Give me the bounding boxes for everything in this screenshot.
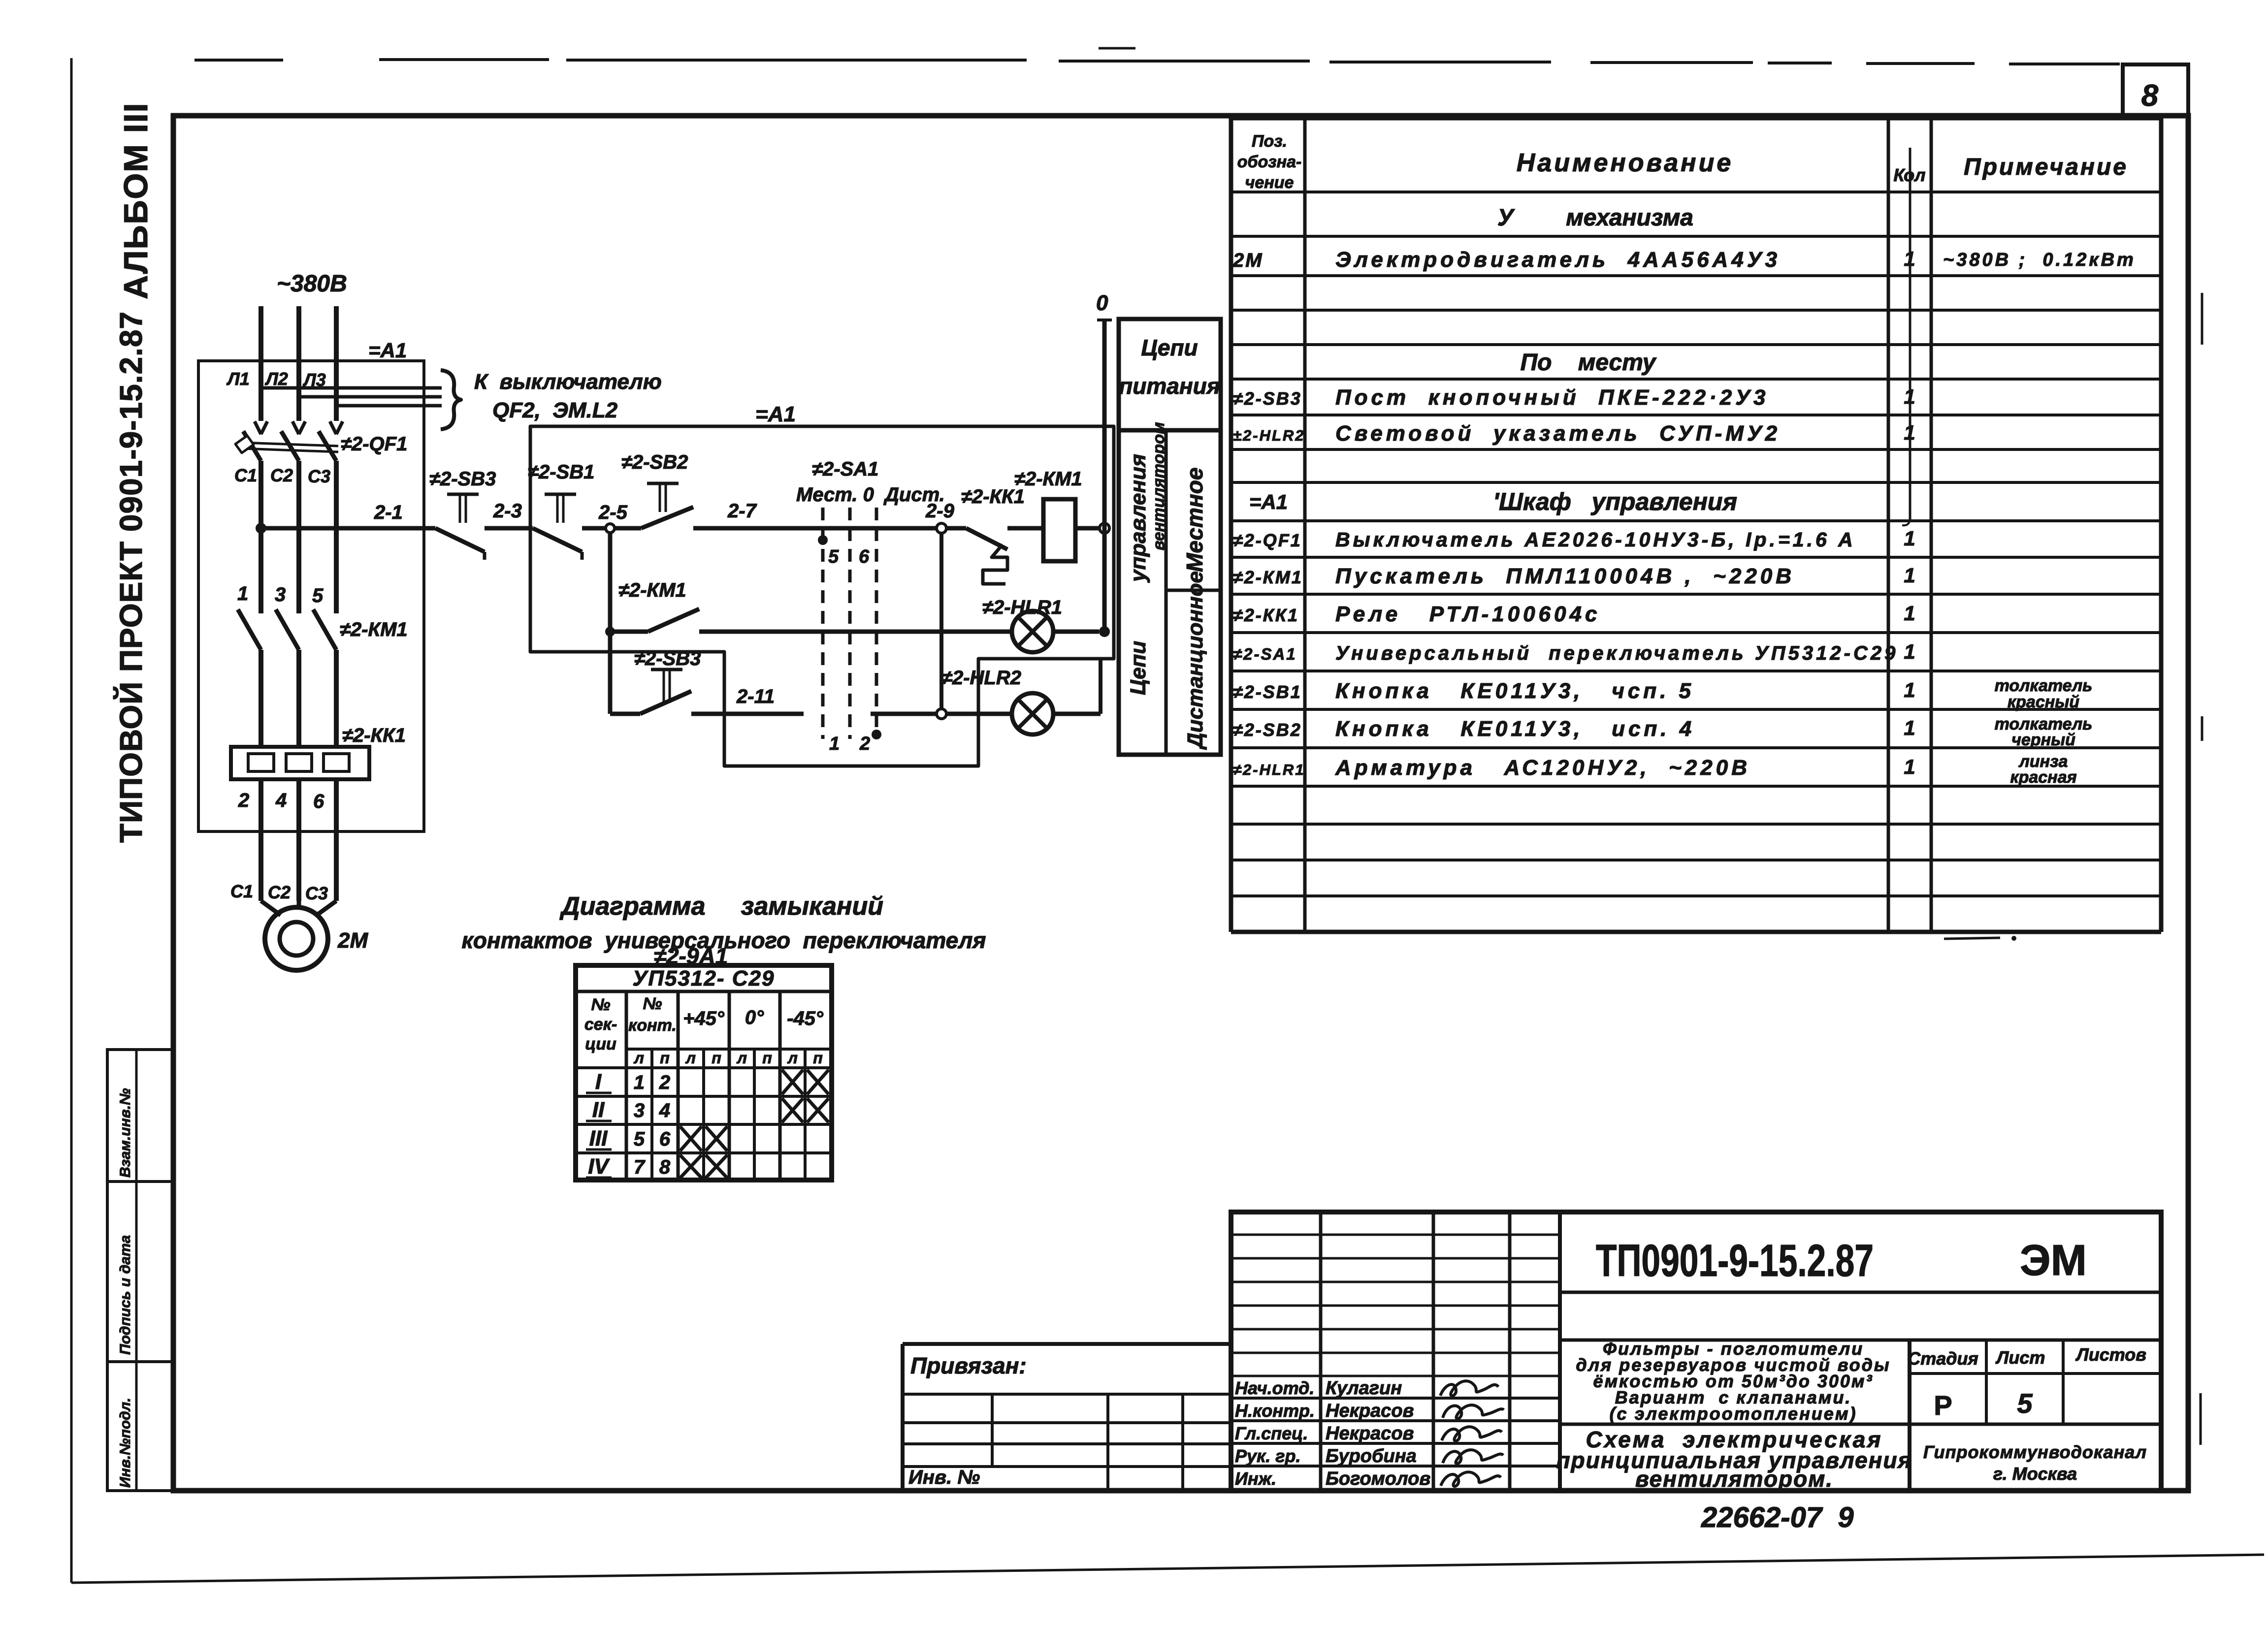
svg-text:С3: С3 [305, 883, 328, 903]
svg-text:обозна-: обозна- [1237, 153, 1302, 171]
svg-text:Рук. гр.: Рук. гр. [1235, 1446, 1301, 1466]
svg-text:1: 1 [1904, 527, 1915, 550]
svg-text:7: 7 [634, 1156, 646, 1178]
svg-text:≠2-HLR1: ≠2-HLR1 [982, 597, 1062, 618]
svg-text:Примечание: Примечание [1964, 154, 2128, 180]
svg-text:л: л [787, 1049, 798, 1067]
svg-text:л: л [685, 1049, 696, 1067]
svg-text:=А1: =А1 [368, 339, 407, 362]
svg-text:Стадия: Стадия [1908, 1348, 1978, 1369]
svg-text:1: 1 [1904, 755, 1915, 778]
svg-text:QF2, ЭМ.L2: QF2, ЭМ.L2 [492, 398, 618, 422]
svg-text:С2: С2 [268, 882, 291, 902]
svg-text:Арматура АС120НУ2, ~220В: Арматура АС120НУ2, ~220В [1335, 756, 1750, 780]
svg-text:Световой указатель СУП-МУ2: Световой указатель СУП-МУ2 [1335, 421, 1781, 446]
svg-text:У механизма: У механизма [1497, 205, 1693, 231]
svg-text:Пускатель ПМЛ110004В , ~220В: Пускатель ПМЛ110004В , ~220В [1335, 564, 1795, 588]
svg-text:черный: черный [2011, 731, 2075, 749]
svg-text:л: л [736, 1049, 747, 1067]
svg-text:С1: С1 [230, 881, 253, 901]
svg-text:≠2-QF1: ≠2-QF1 [341, 433, 407, 455]
svg-text:5: 5 [634, 1128, 645, 1150]
svg-text:~380В ; 0.12кВт: ~380В ; 0.12кВт [1943, 250, 2136, 270]
svg-text:2-1: 2-1 [374, 502, 403, 523]
svg-text:1: 1 [634, 1072, 645, 1093]
svg-text:8: 8 [2141, 79, 2159, 113]
svg-text:1: 1 [1904, 716, 1915, 739]
svg-text:(с электроотоплением): (с электроотоплением) [1610, 1404, 1857, 1424]
svg-text:ТП0901-9-15.2.87: ТП0901-9-15.2.87 [1596, 1236, 1874, 1286]
svg-text:Мест. 0 Дист.: Мест. 0 Дист. [796, 484, 945, 506]
svg-text:-45°: -45° [787, 1008, 824, 1029]
svg-text:IV: IV [588, 1154, 610, 1179]
svg-text:2М: 2М [337, 928, 368, 953]
svg-text:л: л [633, 1049, 644, 1067]
svg-text:г. Москва: г. Москва [1993, 1464, 2077, 1484]
svg-text:Богомолов: Богомолов [1326, 1468, 1430, 1489]
svg-text:Буробина: Буробина [1326, 1446, 1417, 1467]
svg-text:2М: 2М [1232, 250, 1264, 271]
svg-text:≠2-SB1: ≠2-SB1 [1233, 682, 1302, 702]
svg-text:4: 4 [659, 1100, 670, 1121]
svg-text:С1: С1 [234, 465, 257, 485]
svg-text:≠2-HLR2: ≠2-HLR2 [941, 667, 1021, 689]
svg-text:0°: 0° [745, 1007, 764, 1028]
svg-text:Кнопка КЕ011У3, чсп. 5: Кнопка КЕ011У3, чсп. 5 [1335, 679, 1694, 703]
svg-text:Некрасов: Некрасов [1326, 1401, 1414, 1421]
svg-text:2-7: 2-7 [727, 500, 757, 522]
svg-text:1: 1 [237, 583, 248, 605]
svg-text:чение: чение [1245, 173, 1294, 192]
svg-text:УП5312- С29: УП5312- С29 [633, 966, 775, 990]
svg-text:п: п [660, 1049, 670, 1067]
svg-text:Выключатель АЕ2026-10НУ3-Б, Iр: Выключатель АЕ2026-10НУ3-Б, Iр.=1.6 А [1335, 528, 1856, 551]
svg-text:≠2-КК1: ≠2-КК1 [1233, 605, 1299, 625]
svg-text:Пост кнопочный ПКЕ-222·2У3: Пост кнопочный ПКЕ-222·2У3 [1335, 385, 1769, 410]
svg-text:≠2-HLR1: ≠2-HLR1 [1233, 761, 1305, 778]
svg-text:С3: С3 [308, 466, 330, 486]
svg-text:1: 1 [829, 734, 840, 754]
svg-text:С2: С2 [270, 465, 293, 485]
svg-text:1: 1 [1904, 640, 1915, 663]
svg-text:Листов: Листов [2075, 1344, 2146, 1365]
svg-text:Поз.: Поз. [1252, 132, 1287, 151]
svg-text:Инж.: Инж. [1235, 1468, 1276, 1489]
svg-text:Привязан:: Привязан: [910, 1353, 1027, 1378]
svg-text:≠2-SB3: ≠2-SB3 [429, 468, 496, 490]
svg-text:1: 1 [1904, 678, 1915, 702]
svg-text:6: 6 [659, 1128, 671, 1150]
svg-text:Нач.отд.: Нач.отд. [1235, 1378, 1314, 1398]
svg-text:п: п [712, 1049, 721, 1067]
svg-text:+45°: +45° [683, 1008, 725, 1029]
svg-text:п: п [762, 1049, 772, 1067]
svg-text:4: 4 [275, 790, 287, 811]
svg-text:22662-07 9: 22662-07 9 [1701, 1501, 1854, 1533]
svg-text:Местное: Местное [1182, 468, 1207, 572]
svg-text:II: II [592, 1098, 605, 1122]
svg-text:≠2-SB1: ≠2-SB1 [528, 461, 594, 483]
svg-text:№: № [591, 995, 611, 1014]
svg-text:Диаграмма замыканий: Диаграмма замыканий [559, 892, 883, 921]
svg-text:К выключателю: К выключателю [474, 370, 662, 394]
svg-text:≠2-КМ1: ≠2-КМ1 [1233, 567, 1303, 587]
svg-text:сек-: сек- [584, 1015, 617, 1034]
svg-text:'Шкаф управления: 'Шкаф управления [1493, 488, 1737, 515]
svg-text:Подпись и дата: Подпись и дата [117, 1235, 133, 1355]
svg-text:Инв.№подл.: Инв.№подл. [117, 1398, 133, 1488]
svg-text:≠2-SB3: ≠2-SB3 [1233, 388, 1302, 409]
svg-text:2-3: 2-3 [493, 500, 522, 522]
svg-text:Кнопка КЕ011У3, исп. 4: Кнопка КЕ011У3, исп. 4 [1335, 717, 1695, 741]
svg-text:конт.: конт. [628, 1016, 677, 1035]
svg-text:п: п [813, 1049, 823, 1067]
svg-text:≠2-КМ1: ≠2-КМ1 [618, 579, 686, 601]
svg-text:Реле РТЛ-100604с: Реле РТЛ-100604с [1335, 602, 1600, 626]
svg-text:≠2-QF1: ≠2-QF1 [1233, 530, 1302, 550]
svg-text:ЭМ: ЭМ [2020, 1236, 2087, 1284]
svg-text:вентилятором: вентилятором [1149, 422, 1167, 550]
svg-text:Гл.спец.: Гл.спец. [1235, 1423, 1308, 1443]
svg-text:красная: красная [2010, 768, 2076, 787]
svg-text:Кулагин: Кулагин [1326, 1378, 1402, 1399]
svg-text:2: 2 [859, 734, 870, 754]
svg-text:≠2-КМ1: ≠2-КМ1 [340, 619, 408, 640]
svg-text:3: 3 [275, 584, 286, 606]
svg-text:управления: управления [1126, 454, 1150, 583]
svg-text:≠2-КК1: ≠2-КК1 [342, 725, 406, 746]
svg-text:≠2-КМ1: ≠2-КМ1 [1014, 468, 1082, 490]
svg-text:5: 5 [312, 585, 324, 607]
svg-text:=А1: =А1 [755, 402, 796, 426]
svg-text:ТИПОВОЙ ПРОЕКТ 0901-9-15.2.87: ТИПОВОЙ ПРОЕКТ 0901-9-15.2.87 [113, 311, 149, 843]
svg-text:6: 6 [313, 791, 324, 812]
svg-text:3: 3 [634, 1100, 645, 1121]
svg-text:5: 5 [2017, 1388, 2033, 1419]
svg-text:Цепи: Цепи [1126, 641, 1150, 695]
svg-text:Цепи: Цепи [1141, 335, 1198, 360]
svg-text:Лист: Лист [1995, 1347, 2045, 1368]
svg-text:№: № [643, 994, 662, 1013]
svg-text:красный: красный [2008, 693, 2079, 711]
svg-text:1: 1 [1904, 564, 1915, 587]
svg-text:Инв. №: Инв. № [908, 1467, 980, 1488]
svg-text:≠2-SА1: ≠2-SА1 [812, 458, 878, 480]
svg-text:2-11: 2-11 [736, 686, 775, 707]
svg-text:0: 0 [1096, 291, 1108, 315]
svg-text:=А1: =А1 [1249, 490, 1288, 513]
svg-text:~380В: ~380В [277, 271, 347, 297]
svg-text:питания: питания [1119, 373, 1220, 399]
svg-text:По месту: По месту [1521, 350, 1657, 376]
svg-text:Гипрокоммунводоканал: Гипрокоммунводоканал [1923, 1442, 2147, 1462]
svg-text:±2-HLR2: ±2-HLR2 [1233, 427, 1305, 444]
svg-text:6: 6 [859, 546, 870, 567]
svg-text:АЛЬБОМ III: АЛЬБОМ III [117, 102, 155, 299]
svg-text:Некрасов: Некрасов [1326, 1423, 1414, 1444]
svg-text:≠2-SB2: ≠2-SB2 [621, 451, 688, 473]
svg-text:5: 5 [828, 546, 839, 567]
svg-text:вентилятором.: вентилятором. [1635, 1466, 1833, 1492]
svg-text:1: 1 [1904, 602, 1915, 625]
svg-text:8: 8 [659, 1156, 671, 1178]
svg-text:Наименование: Наименование [1517, 149, 1734, 177]
svg-text:I: I [595, 1070, 602, 1094]
svg-text:ции: ции [585, 1035, 616, 1053]
svg-text:Р: Р [1934, 1390, 1952, 1421]
svg-text:Дистанционное: Дистанционное [1183, 571, 1207, 750]
svg-text:2-5: 2-5 [598, 502, 628, 523]
svg-text:2: 2 [659, 1072, 670, 1093]
svg-text:Универсальный переключатель У: Универсальный переключатель УП5312-С29 [1335, 642, 1898, 664]
svg-text:III: III [589, 1126, 608, 1150]
svg-text:≠2-SB2: ≠2-SB2 [1233, 720, 1302, 740]
svg-text:2: 2 [238, 790, 249, 811]
svg-text:≠2-SA1: ≠2-SA1 [1233, 645, 1297, 663]
svg-text:Л2: Л2 [264, 369, 288, 389]
svg-text:Н.контр.: Н.контр. [1235, 1401, 1315, 1421]
svg-text:Электродвигатель 4АА56А4У3: Электродвигатель 4АА56А4У3 [1335, 248, 1781, 272]
svg-text:Взам.инв.№: Взам.инв.№ [117, 1088, 133, 1178]
svg-text:Л1: Л1 [226, 369, 250, 389]
